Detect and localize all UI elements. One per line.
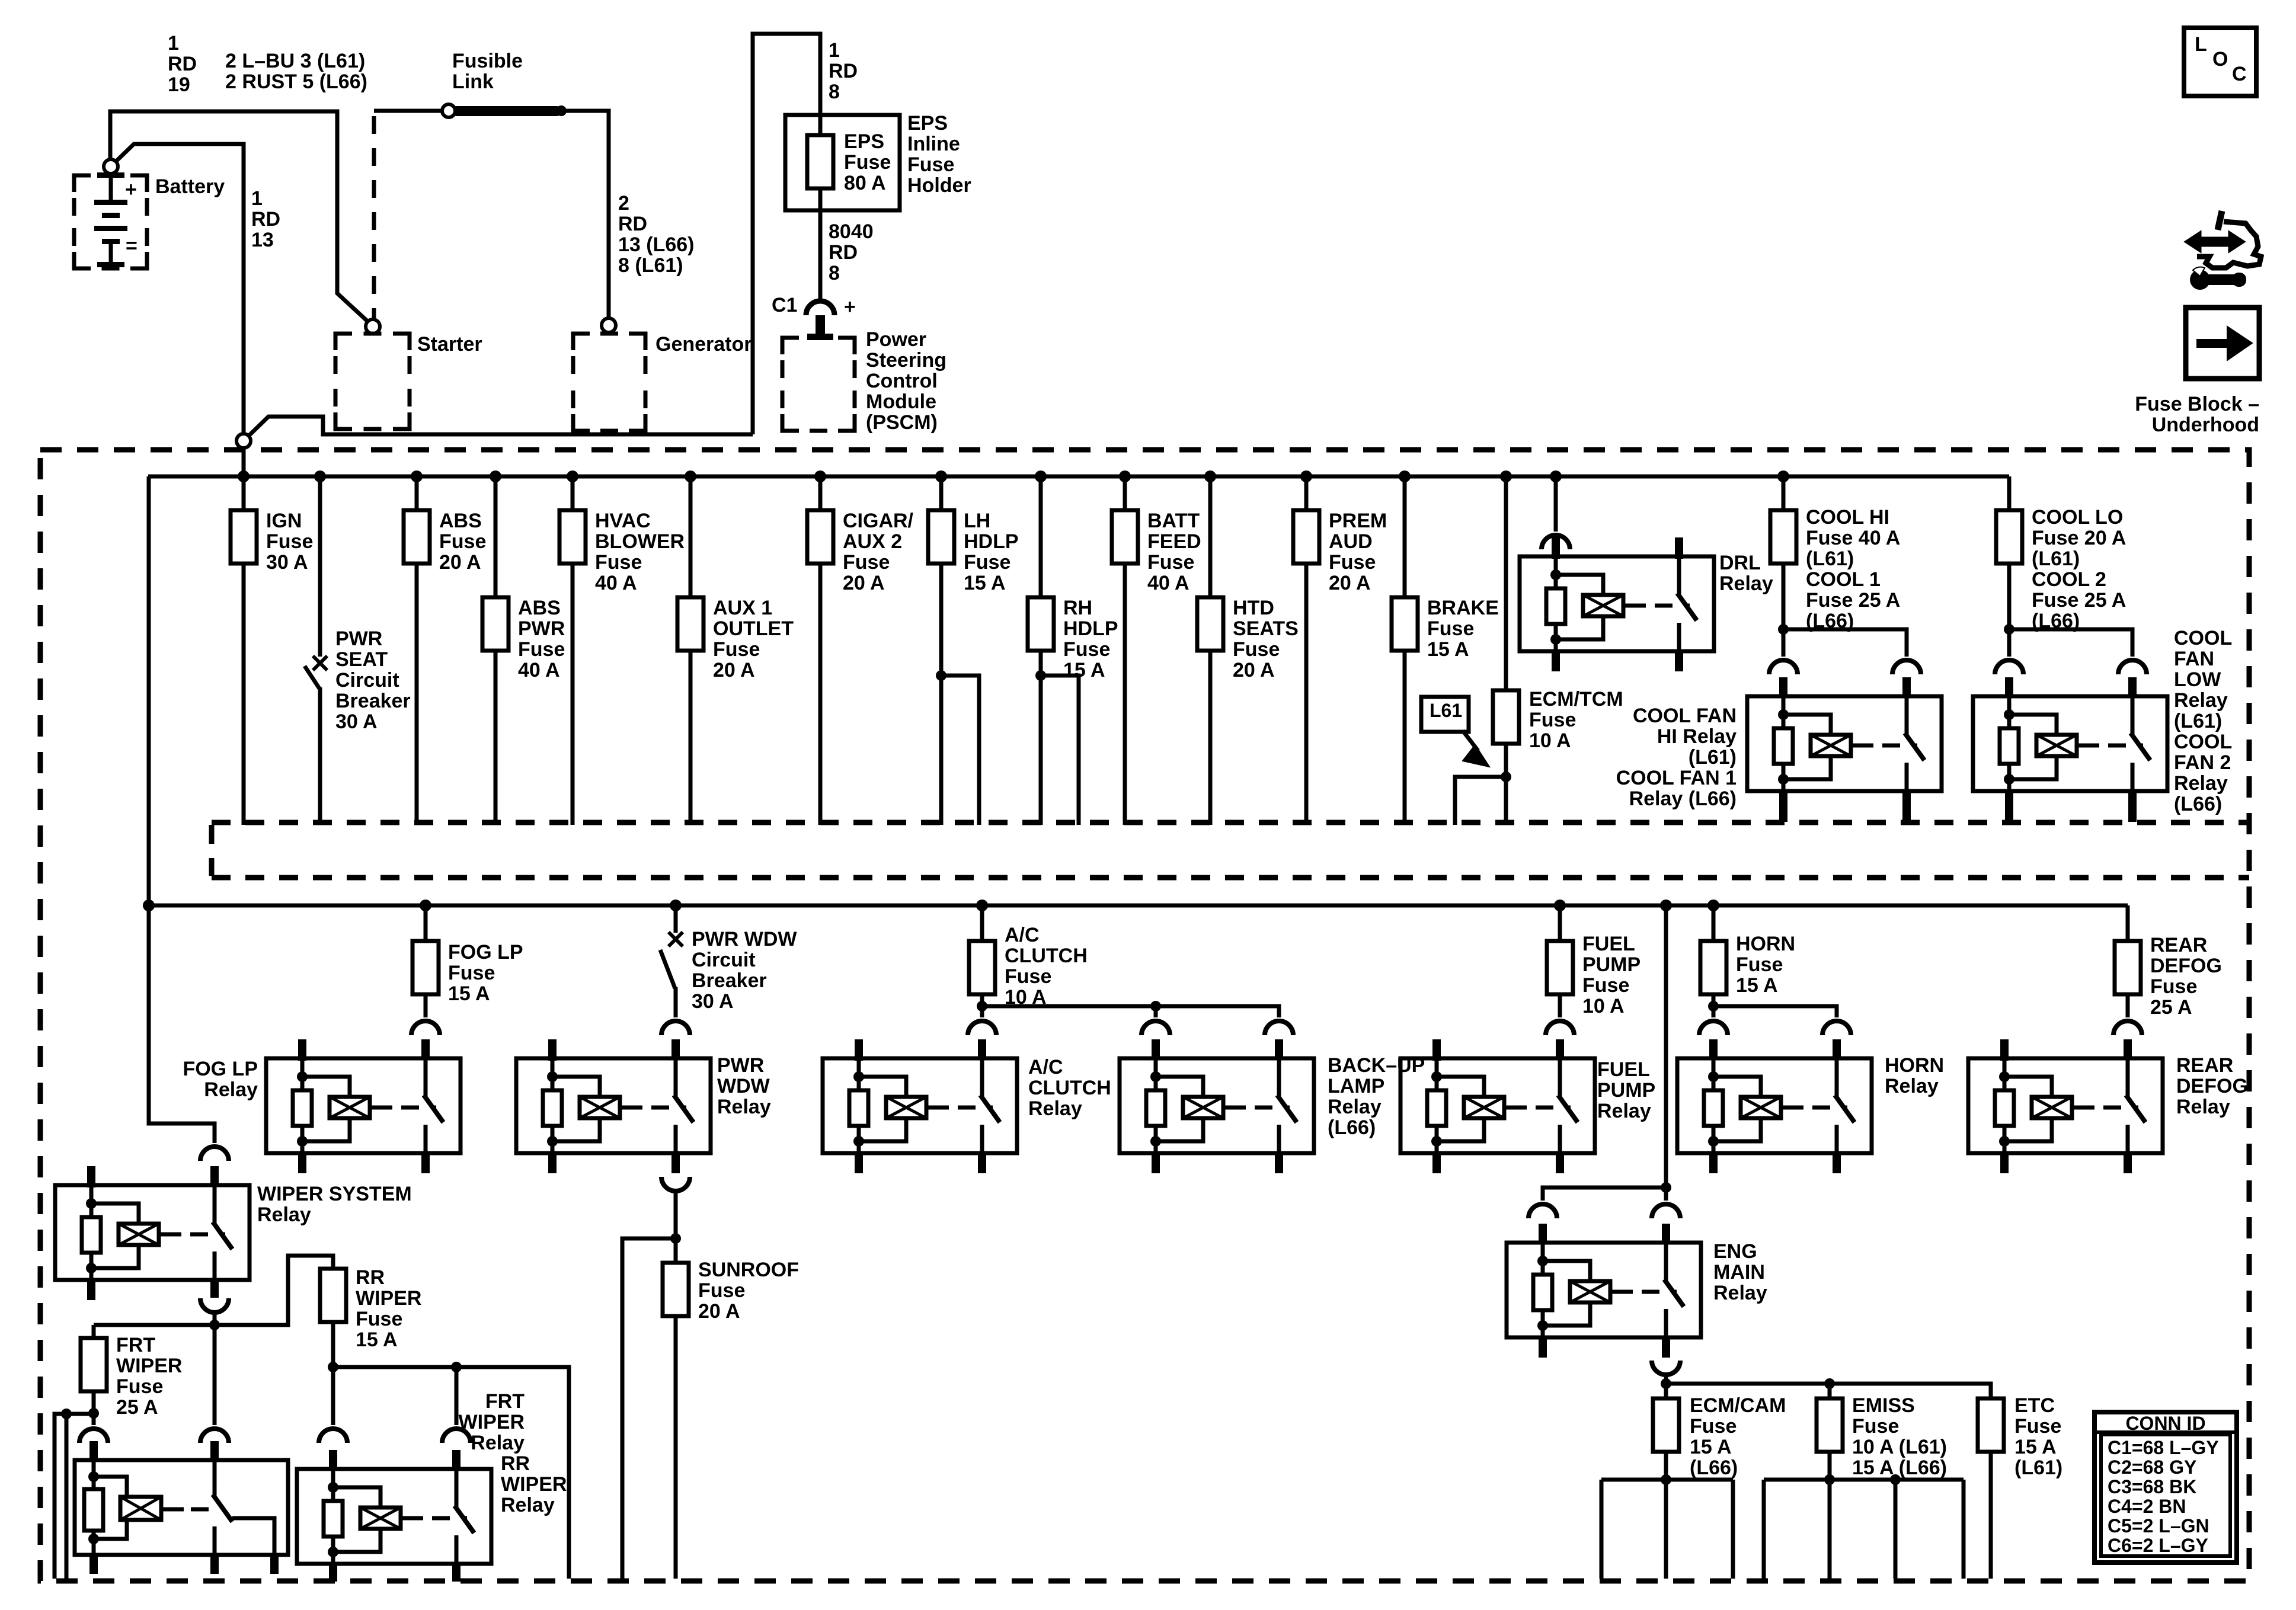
WIPER SYSTEM output cup arc — [200, 1298, 229, 1313]
junction dot DRL — [1550, 470, 1562, 482]
relay COOL FAN HI — [1747, 696, 1942, 791]
svg-text:15 A: 15 A — [1063, 659, 1105, 681]
wire PWR WDW output — [674, 1192, 678, 1238]
svg-text:15 A: 15 A — [964, 572, 1006, 594]
wire bus right corner to COOL LO — [2007, 476, 2012, 510]
fuse A/C CLUTCH 10 A — [969, 941, 995, 994]
svg-text:AUD: AUD — [1329, 530, 1373, 553]
svg-text:25 A: 25 A — [2150, 996, 2192, 1019]
svg-text:O: O — [2212, 48, 2228, 71]
svg-text:PUMP: PUMP — [1582, 953, 1641, 976]
svg-text:C4=2 BN: C4=2 BN — [2108, 1496, 2186, 1517]
wire 1 RD 8 EPS feed — [753, 34, 820, 434]
svg-text:(L61): (L61) — [2174, 710, 2222, 732]
svg-text:Fuse: Fuse — [1736, 953, 1783, 976]
svg-text:EMISS: EMISS — [1852, 1394, 1915, 1417]
svg-text:Fuse: Fuse — [698, 1279, 745, 1302]
fuse BRAKE Fuse 15 A — [1392, 597, 1418, 651]
starter ring terminal — [366, 319, 380, 334]
svg-text:CLUTCH: CLUTCH — [1005, 945, 1088, 967]
svg-text:IGN: IGN — [266, 510, 302, 532]
svg-text:ECM/CAM: ECM/CAM — [1690, 1394, 1786, 1417]
svg-text:HORN: HORN — [1736, 933, 1795, 955]
svg-text:15 A: 15 A — [1736, 974, 1778, 997]
junction dot ABS — [411, 470, 423, 482]
svg-text:WIPER: WIPER — [501, 1473, 567, 1496]
svg-text:10 A: 10 A — [1529, 729, 1571, 752]
wrench icon — [2190, 270, 2210, 290]
fuse FUEL PUMP 10 A — [1547, 941, 1573, 994]
ENG MAIN pin stubs — [1539, 1224, 1547, 1244]
LOC box — [2184, 28, 2256, 96]
ECM/TCM branch wire — [1455, 777, 1506, 825]
EMISS feed junction dot — [1824, 1378, 1835, 1389]
wire FUEL PUMP fuse to relay — [1558, 994, 1562, 1017]
wire drop CIGAR/AUX 2 — [818, 476, 823, 825]
wire COOL HI left pin — [1782, 629, 1786, 657]
svg-text:PUMP: PUMP — [1597, 1079, 1655, 1102]
svg-text:13 (L66): 13 (L66) — [618, 233, 695, 256]
svg-text:Fuse: Fuse — [266, 530, 313, 553]
wire drop PREMAUD — [1304, 476, 1309, 825]
relay FRT WIPER — [75, 1460, 288, 1555]
svg-text:COOL HI: COOL HI — [1806, 506, 1889, 529]
svg-text:EPS: EPS — [907, 112, 948, 135]
wire below FRT WIPER fuse — [92, 1391, 96, 1413]
svg-text:40 A: 40 A — [595, 572, 637, 594]
A/C feed junction dot — [977, 1001, 987, 1012]
svg-text:15 A: 15 A — [448, 982, 490, 1005]
svg-text:PWR: PWR — [518, 617, 565, 640]
wire drop BATTFEED — [1123, 476, 1127, 825]
svg-text:FAN: FAN — [2174, 648, 2214, 670]
svg-text:Fuse: Fuse — [1063, 638, 1110, 661]
svg-text:Fuse: Fuse — [843, 551, 890, 574]
junction dot FOG LP — [420, 900, 431, 911]
svg-text:MAIN: MAIN — [1713, 1261, 1765, 1283]
junction dot IGN — [238, 470, 250, 482]
wire FRT WIPER fuse drop — [92, 1325, 96, 1338]
bus1 left vertical to bus2 — [147, 476, 151, 905]
svg-text:Fuse: Fuse — [1147, 551, 1194, 574]
RR WIPER pin stubs — [329, 1450, 337, 1470]
svg-text:=: = — [126, 235, 137, 257]
svg-text:DRL: DRL — [1719, 552, 1761, 574]
svg-text:OUTLET: OUTLET — [713, 617, 794, 640]
svg-text:Fuse: Fuse — [595, 551, 642, 574]
wire drop ECM/TCM — [1504, 476, 1508, 825]
relay COOL FAN LOW — [1973, 696, 2167, 791]
svg-text:WIPER: WIPER — [459, 1411, 525, 1433]
COOL HI junction dot — [1778, 624, 1789, 635]
ENG MAIN output junction dot — [1661, 1378, 1671, 1389]
svg-text:Battery: Battery — [155, 175, 225, 198]
relay DRL — [1520, 556, 1714, 651]
fuse IGN Fuse 30 A — [231, 510, 257, 564]
svg-text:20 A: 20 A — [698, 1300, 740, 1323]
fuse SUNROOF 20 A — [663, 1263, 689, 1316]
svg-text:LH: LH — [964, 510, 990, 532]
svg-text:Relay: Relay — [501, 1494, 555, 1516]
wire ENG MAIN right pin — [1664, 1188, 1668, 1201]
svg-text:RD: RD — [829, 60, 858, 82]
svg-text:8: 8 — [829, 81, 840, 103]
svg-text:10 A: 10 A — [1582, 995, 1625, 1017]
svg-text:C1: C1 — [772, 294, 797, 316]
BACK-UP LAMP right arc — [1265, 1021, 1293, 1035]
ENG MAIN feed junction dot — [1661, 1182, 1671, 1193]
svg-text:HVAC: HVAC — [595, 510, 651, 532]
fuse HTD SEATS Fuse 20 A — [1197, 597, 1223, 651]
svg-text:40 A: 40 A — [1147, 572, 1189, 594]
wire ecm distribution — [1666, 1384, 1991, 1398]
wire sunroof branch left — [622, 1238, 676, 1579]
junction dot LHHDLP — [935, 470, 947, 482]
svg-text:REAR: REAR — [2150, 934, 2207, 956]
battery positive ring terminal — [104, 159, 118, 174]
wire drop HVACBLOWER — [571, 476, 575, 825]
svg-text:WIPER: WIPER — [116, 1355, 182, 1377]
svg-text:RR: RR — [356, 1266, 385, 1289]
svg-text:REAR: REAR — [2176, 1054, 2233, 1077]
svg-text:Relay: Relay — [2174, 689, 2228, 712]
svg-text:2 L–BU 3 (L61): 2 L–BU 3 (L61) — [225, 50, 365, 72]
fuse ETC — [1978, 1398, 2004, 1452]
relay RR WIPER — [297, 1469, 491, 1564]
COOL FAN HI pin stubs — [1779, 677, 1787, 697]
svg-text:Generator: Generator — [655, 333, 752, 356]
fuse HORN 15 A — [1700, 941, 1726, 994]
svg-text:Power: Power — [866, 328, 926, 351]
svg-text:Fuse 20 A: Fuse 20 A — [2032, 527, 2126, 549]
svg-text:ECM/TCM: ECM/TCM — [1529, 688, 1623, 710]
svg-text:SEATS: SEATS — [1233, 617, 1299, 640]
bus2 left junction dot — [143, 900, 155, 911]
REAR DEFOG pin stubs — [2000, 1039, 2009, 1061]
battery ring junction on IGN feed — [248, 417, 753, 436]
svg-text:Fuse: Fuse — [713, 638, 760, 661]
fuse PREM AUD Fuse 20 A — [1293, 510, 1319, 564]
junction dot PWR WDW — [670, 900, 682, 911]
svg-text:15 A: 15 A — [356, 1329, 398, 1351]
COOL FAN LOW pin stubs — [2005, 677, 2013, 697]
svg-text:Fuse: Fuse — [1582, 974, 1629, 997]
svg-text:ENG: ENG — [1713, 1240, 1757, 1263]
wire ENG MAIN coil branch — [1543, 1188, 1666, 1201]
svg-text:C3=68 BK: C3=68 BK — [2108, 1476, 2196, 1497]
svg-text:Fuse: Fuse — [1427, 617, 1474, 640]
svg-text:HTD: HTD — [1233, 597, 1274, 619]
fuse REAR DEFOG 25 A — [2115, 941, 2141, 994]
junction dot HTDSEATS — [1204, 470, 1216, 482]
svg-text:30 A: 30 A — [335, 710, 378, 733]
svg-text:Fuse: Fuse — [1852, 1415, 1899, 1438]
svg-text:Fuse: Fuse — [116, 1375, 163, 1398]
relay A/C CLUTCH — [823, 1058, 1017, 1153]
svg-text:Starter: Starter — [417, 333, 482, 356]
BACK-UP LAMP left arc — [1141, 1021, 1170, 1035]
battery — [74, 175, 91, 192]
svg-text:CLUTCH: CLUTCH — [1028, 1077, 1111, 1099]
WIPER SYSTEM relay arc — [200, 1147, 229, 1161]
FRT WIPER pin stubs — [89, 1441, 98, 1461]
wire ECM/CAM fuse drop — [1664, 1384, 1668, 1398]
svg-text:Fusible: Fusible — [452, 50, 523, 72]
LH HDLP branch wire — [941, 676, 979, 825]
wire 1 RD 13 battery branch — [116, 144, 244, 437]
FRT WIPER left arc — [79, 1429, 108, 1443]
svg-text:Fuse: Fuse — [1529, 709, 1576, 731]
wire drop ABSPWR — [494, 476, 498, 825]
svg-text:Inline: Inline — [907, 133, 960, 155]
wire COOL LO left pin — [2007, 629, 2012, 657]
PWR WDW output junction dot — [670, 1233, 681, 1244]
relay PWR WDW — [516, 1058, 711, 1153]
fusible link right junction dot — [556, 105, 567, 116]
relay FOG LP — [266, 1058, 461, 1153]
RR WIPER wire junction dot — [328, 1362, 338, 1372]
svg-text:L61: L61 — [1430, 700, 1462, 721]
relay FUEL PUMP — [1400, 1058, 1595, 1153]
svg-text:20 A: 20 A — [1233, 659, 1275, 681]
ENG MAIN right arc — [1652, 1204, 1680, 1218]
fuse HVAC BLOWER Fuse 40 A — [559, 510, 586, 564]
svg-text:COOL FAN: COOL FAN — [1633, 705, 1737, 727]
fuse COOL HI 40 A — [1770, 510, 1796, 564]
PSCM C1 connector arc — [806, 301, 834, 315]
svg-text:(L66): (L66) — [1690, 1457, 1738, 1479]
svg-text:DEFOG: DEFOG — [2176, 1075, 2248, 1097]
svg-text:30 A: 30 A — [266, 551, 308, 574]
svg-text:LOW: LOW — [2174, 668, 2221, 691]
wire EMISS loads — [1828, 1452, 1832, 1480]
wire drop PWR SEAT — [318, 476, 322, 657]
relay HORN — [1677, 1058, 1872, 1153]
svg-text:EPS: EPS — [844, 130, 884, 153]
svg-text:FOG LP: FOG LP — [448, 941, 523, 964]
svg-text:8: 8 — [829, 262, 840, 284]
FUEL PUMP relay pin stubs — [1432, 1039, 1441, 1061]
svg-text:HDLP: HDLP — [964, 530, 1019, 553]
wire HORN fuse to junction — [1712, 994, 1716, 1006]
DRL relay top-left connector arc — [1542, 535, 1570, 549]
wire A/C feed branch — [982, 1006, 1279, 1017]
vehicle icon outline — [2197, 222, 2261, 268]
svg-text:(L61): (L61) — [2032, 548, 2080, 570]
CONN ID table box — [2094, 1412, 2237, 1563]
junction dot CIGAR/AUX 2 — [814, 470, 826, 482]
generator ring terminal — [602, 318, 616, 332]
wire drop RHHDLP — [1039, 476, 1043, 825]
junction dot PWR SEAT — [314, 470, 326, 482]
svg-text:FOG LP: FOG LP — [183, 1058, 258, 1080]
svg-text:40 A: 40 A — [518, 659, 560, 681]
svg-text:HI Relay: HI Relay — [1657, 725, 1737, 748]
fuse FRT WIPER 25 A — [81, 1338, 107, 1391]
wire drop A/C CLUTCH — [980, 905, 984, 941]
wire RR WIPER right pin — [455, 1367, 459, 1425]
ENG MAIN left arc — [1528, 1204, 1557, 1218]
svg-text:FUEL: FUEL — [1597, 1058, 1650, 1081]
svg-text:Relay: Relay — [1719, 572, 1773, 595]
svg-text:CONN ID: CONN ID — [2125, 1413, 2205, 1434]
PWR WDW relay right arc — [661, 1021, 690, 1035]
svg-text:Fuse: Fuse — [844, 151, 891, 174]
svg-text:Fuse 25 A: Fuse 25 A — [2032, 589, 2126, 612]
svg-text:Relay: Relay — [1885, 1075, 1939, 1097]
svg-text:(L61): (L61) — [1806, 548, 1854, 570]
fuse ECM/TCM 10 A — [1493, 690, 1519, 744]
wire drop IGN — [242, 476, 246, 825]
svg-text:PWR: PWR — [335, 628, 382, 650]
vehicle icon windshield stroke — [2218, 211, 2222, 230]
junction dot HORN — [1707, 900, 1719, 911]
fuse COOL LO — [1996, 510, 2022, 564]
wire frt wiper branch 2 — [65, 1414, 69, 1579]
fusible link terminal ring — [442, 104, 455, 117]
wire REAR DEFOG fuse to relay — [2126, 994, 2130, 1017]
L61 tag box — [1421, 697, 1469, 732]
PSCM pin base bar — [807, 334, 833, 340]
PSCM pin — [816, 315, 825, 335]
vehicle icon double arrow — [2185, 232, 2244, 252]
svg-text:PWR: PWR — [717, 1054, 764, 1077]
fuse FOG LP 15 A — [412, 941, 439, 994]
FRT WIPER right arc — [200, 1429, 229, 1443]
svg-text:Relay: Relay — [717, 1096, 771, 1118]
svg-text:AUX 2: AUX 2 — [843, 530, 902, 553]
HORN pin stubs — [1709, 1039, 1718, 1060]
fuse AUX 1 OUTLET Fuse 20 A — [677, 597, 703, 651]
wire bus2 right corner to REAR DEFOG — [2126, 905, 2130, 941]
svg-text:25 A: 25 A — [116, 1396, 158, 1419]
svg-text:20 A: 20 A — [843, 572, 885, 594]
A/C CLUTCH relay pin stubs — [855, 1039, 863, 1061]
HORN left arc — [1699, 1021, 1728, 1035]
svg-text:RR: RR — [501, 1452, 530, 1475]
svg-text:80 A: 80 A — [844, 172, 886, 194]
fuse RH HDLP Fuse 15 A — [1028, 597, 1054, 651]
FRT WIPER junction dot — [88, 1408, 99, 1419]
svg-text:BATT: BATT — [1147, 510, 1200, 532]
svg-text:C1=68 L–GY: C1=68 L–GY — [2108, 1437, 2219, 1458]
wire HORN left pin — [1712, 1006, 1716, 1017]
wire drop LHHDLP — [939, 476, 944, 825]
junction dot RHHDLP — [1035, 470, 1047, 482]
svg-text:C5=2 L–GN: C5=2 L–GN — [2108, 1515, 2209, 1537]
svg-text:C6=2 L–GY: C6=2 L–GY — [2108, 1535, 2208, 1556]
wire 1 RD 19 battery to starter — [110, 111, 367, 321]
svg-text:FRT: FRT — [116, 1334, 155, 1356]
wire through EPS fuse — [818, 135, 823, 210]
svg-text:FRT: FRT — [485, 1390, 525, 1413]
svg-text:RD: RD — [618, 213, 647, 235]
svg-text:COOL: COOL — [2174, 627, 2232, 649]
svg-text:FAN 2: FAN 2 — [2174, 751, 2231, 774]
svg-text:COOL LO: COOL LO — [2032, 506, 2123, 529]
fuse ABS PWR Fuse 40 A — [482, 597, 509, 651]
svg-text:1: 1 — [251, 187, 263, 210]
wire FRT WIPER switch feed — [213, 1327, 217, 1425]
wire wiper output to wire — [213, 1313, 217, 1327]
svg-text:Fuse: Fuse — [356, 1308, 402, 1330]
fuse EMISS — [1817, 1398, 1843, 1452]
svg-text:Relay: Relay — [2174, 772, 2228, 795]
inner dashed partition lower — [212, 875, 2249, 881]
svg-text:PWR WDW: PWR WDW — [692, 928, 797, 950]
BACK-UP LAMP pin stubs — [1152, 1039, 1160, 1060]
wire A/C right pin — [980, 1006, 984, 1017]
fuse BATT FEED Fuse 40 A — [1112, 510, 1138, 564]
svg-text:Fuse 40 A: Fuse 40 A — [1806, 527, 1900, 549]
svg-text:(PSCM): (PSCM) — [866, 411, 938, 434]
svg-text:Fuse: Fuse — [518, 638, 565, 661]
PSCM box — [782, 338, 799, 354]
svg-text:(L66): (L66) — [2174, 793, 2222, 815]
svg-text:FEED: FEED — [1147, 530, 1201, 553]
svg-text:BRAKE: BRAKE — [1427, 597, 1499, 619]
svg-text:Relay: Relay — [2176, 1096, 2230, 1118]
EPS inline fuse holder box — [785, 115, 900, 210]
fuse EPS 80 A — [807, 135, 833, 188]
FOG LP relay right arc — [411, 1021, 440, 1035]
circuit breaker PWR WDW — [669, 932, 683, 946]
svg-text:15 A: 15 A — [1427, 638, 1469, 661]
svg-text:1: 1 — [168, 32, 179, 55]
svg-text:Breaker: Breaker — [335, 690, 411, 712]
generator box — [573, 334, 590, 350]
svg-text:COOL 2: COOL 2 — [2032, 568, 2106, 591]
inner dashed partition upper — [212, 820, 2249, 825]
svg-text:Relay: Relay — [1028, 1097, 1082, 1120]
wire ENG MAIN output — [1664, 1375, 1668, 1384]
svg-text:20 A: 20 A — [1329, 572, 1371, 594]
wire drop AUX 1OUTLET — [689, 476, 693, 825]
svg-text:FUEL: FUEL — [1582, 933, 1635, 955]
svg-text:13: 13 — [251, 229, 274, 251]
wire drop HTDSEATS — [1208, 476, 1213, 825]
svg-text:A/C: A/C — [1005, 924, 1040, 946]
dashed link to starter — [372, 116, 376, 330]
PWR WDW relay pin stubs — [548, 1039, 557, 1061]
junction dot COOL HI — [1777, 470, 1789, 482]
svg-text:ABS: ABS — [518, 597, 561, 619]
svg-text:WDW: WDW — [717, 1075, 770, 1097]
svg-text:8040: 8040 — [829, 220, 874, 243]
fusible link — [454, 106, 559, 116]
svg-text:A/C: A/C — [1028, 1056, 1063, 1078]
svg-text:Steering: Steering — [866, 349, 946, 372]
wire RR WIPER left pin — [331, 1367, 335, 1425]
svg-text:15 A (L66): 15 A (L66) — [1852, 1457, 1947, 1479]
arrow box — [2186, 308, 2259, 379]
wire FOG LP fuse to relay — [424, 994, 428, 1017]
ENG MAIN output cup arc — [1652, 1361, 1680, 1375]
wire drop FUEL PUMP — [1558, 905, 1562, 941]
svg-text:ETC: ETC — [2014, 1394, 2055, 1417]
svg-text:C: C — [2232, 63, 2247, 85]
wire frt wiper left branch — [55, 1414, 94, 1579]
bus 2 horizontal — [149, 904, 2128, 908]
fuse CIGAR/ AUX 2 Fuse 20 A — [807, 510, 833, 564]
svg-text:15 A: 15 A — [1690, 1436, 1732, 1458]
svg-text:COOL: COOL — [2174, 731, 2232, 753]
svg-text:Circuit: Circuit — [335, 669, 399, 692]
svg-text:Relay (L66): Relay (L66) — [1629, 788, 1737, 810]
svg-text:Fuse Block –: Fuse Block – — [2135, 393, 2259, 415]
svg-text:Control: Control — [866, 370, 938, 392]
svg-text:20 A: 20 A — [713, 659, 755, 681]
